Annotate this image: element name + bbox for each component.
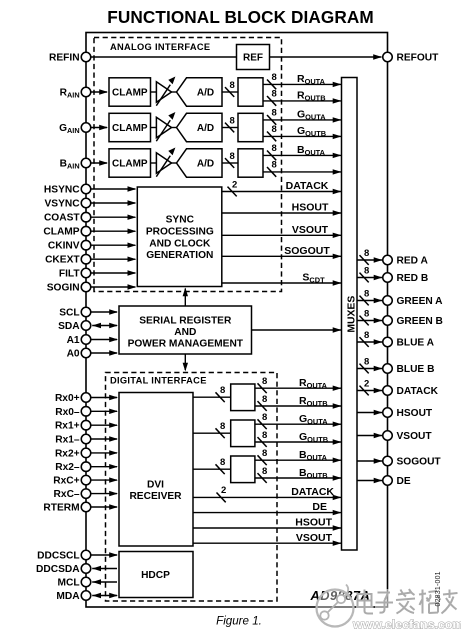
wire BOUTB to muxes xyxy=(263,171,342,173)
pin BAIN xyxy=(81,158,91,168)
svg-text:SDA: SDA xyxy=(58,321,80,332)
bus width 8 xyxy=(258,383,267,393)
bus width 8 xyxy=(360,337,369,347)
wire mux to DE xyxy=(357,480,382,482)
svg-text:MDA: MDA xyxy=(56,591,80,602)
svg-text:8: 8 xyxy=(272,72,277,83)
arrowhead xyxy=(128,200,137,205)
arrowhead xyxy=(374,339,383,344)
svg-text:SOGOUT: SOGOUT xyxy=(284,245,330,257)
pin CLAMP xyxy=(81,226,91,236)
block digital latch (G) xyxy=(231,420,255,447)
arrowhead xyxy=(109,491,118,496)
wire HSYNC to sync block xyxy=(91,188,136,190)
wire amp to A/D (B) xyxy=(172,162,177,164)
wire DVI to latch (R) xyxy=(193,396,231,398)
bus width 8 xyxy=(258,419,267,429)
pin A0 xyxy=(81,348,91,358)
pin Rx0+ xyxy=(81,393,91,403)
pin Rx2- xyxy=(81,462,91,472)
arrowhead xyxy=(183,363,188,372)
pin DDCSCL xyxy=(81,550,91,560)
wire MCL to HDCP xyxy=(92,581,117,583)
amplifier (G) xyxy=(156,117,171,137)
svg-text:RED B: RED B xyxy=(397,273,429,284)
bus width 8 xyxy=(225,123,234,133)
watermark logo xyxy=(317,585,354,627)
svg-text:8: 8 xyxy=(262,448,267,459)
arrowhead xyxy=(128,243,137,248)
svg-text:SYNC: SYNC xyxy=(166,215,195,226)
arrowhead xyxy=(374,433,383,438)
wire mux to VSOUT xyxy=(357,435,382,437)
svg-text:Rx1–: Rx1– xyxy=(55,435,80,446)
svg-text:REFIN: REFIN xyxy=(49,53,80,64)
wire BAIN to CLAMP xyxy=(91,162,107,164)
arrowhead xyxy=(374,410,383,415)
svg-text:REF: REF xyxy=(243,52,263,63)
wire digital ROUTB xyxy=(255,405,342,407)
arrowhead xyxy=(109,337,118,342)
arrowhead xyxy=(109,309,118,314)
arrowhead xyxy=(333,280,342,285)
svg-text:8: 8 xyxy=(364,356,369,367)
arrowhead xyxy=(374,478,383,483)
arrowhead xyxy=(128,186,137,191)
arrowhead xyxy=(109,423,118,428)
wire A/D to latch (R) xyxy=(222,91,238,93)
wire digital BOUTB xyxy=(255,477,342,479)
bus width 8 xyxy=(360,296,369,306)
arrowhead xyxy=(128,215,137,220)
pin RTERM xyxy=(81,502,91,512)
bus width 8 xyxy=(267,151,276,161)
block latch (B) xyxy=(238,149,263,177)
arrowhead xyxy=(374,366,383,371)
svg-text:PROCESSING: PROCESSING xyxy=(146,226,214,237)
pin FILT xyxy=(81,268,91,278)
wire COAST to sync block xyxy=(91,216,136,218)
svg-text:POWER MANAGEMENT: POWER MANAGEMENT xyxy=(128,339,244,350)
svg-text:HDCP: HDCP xyxy=(141,570,170,581)
svg-text:VSOUT: VSOUT xyxy=(397,431,433,442)
pin CKINV xyxy=(81,240,91,250)
arrowhead xyxy=(128,229,137,234)
pin Rx1- xyxy=(81,434,91,444)
arrowhead xyxy=(333,510,342,515)
svg-text:COAST: COAST xyxy=(44,213,80,224)
svg-text:DE: DE xyxy=(312,501,327,513)
wire sync SCDT xyxy=(222,282,342,284)
arrowhead xyxy=(109,464,118,469)
arrowhead xyxy=(333,169,342,174)
block DVI RECEIVER xyxy=(119,393,193,547)
analog interface dashed box xyxy=(94,38,282,292)
wire ROUTB to muxes xyxy=(263,100,342,102)
arrowhead xyxy=(183,288,188,297)
wire DVI to latch (B) xyxy=(193,468,231,470)
wire A0 to serial block xyxy=(91,352,117,354)
arrowhead xyxy=(333,117,342,122)
bus width 8 xyxy=(225,87,234,97)
watermark underlay xyxy=(356,589,458,616)
arrowhead xyxy=(333,98,342,103)
wire mux to SOGOUT xyxy=(357,460,382,462)
arrowhead xyxy=(99,89,108,94)
arrowhead xyxy=(374,318,383,323)
svg-text:VSOUT: VSOUT xyxy=(292,224,329,236)
bus width 8 xyxy=(360,273,369,283)
arrowhead xyxy=(374,388,383,393)
bus width 8 xyxy=(216,464,225,474)
arrowhead xyxy=(373,54,382,59)
wire FILT to sync block xyxy=(91,272,136,274)
arrowhead xyxy=(109,436,118,441)
svg-text:8: 8 xyxy=(230,80,235,91)
arrowhead xyxy=(333,475,342,480)
svg-text:8: 8 xyxy=(272,124,277,135)
pin GREEN B xyxy=(383,316,393,326)
arrowhead xyxy=(333,327,342,332)
wire digital ROUTA xyxy=(255,387,342,389)
pin Rx1+ xyxy=(81,420,91,430)
svg-text:CKINV: CKINV xyxy=(48,241,80,252)
svg-text:RxC+: RxC+ xyxy=(53,476,79,487)
wire mux to BLUE A xyxy=(357,341,382,343)
pin HSOUT xyxy=(383,408,393,418)
svg-text:Rx0–: Rx0– xyxy=(55,407,80,418)
arrowhead xyxy=(92,323,101,328)
block CLAMP (B) xyxy=(109,149,151,177)
wire REFIN to REF xyxy=(91,56,237,58)
digital interface dashed box xyxy=(106,373,278,602)
svg-text:8: 8 xyxy=(364,265,369,276)
svg-text:VSYNC: VSYNC xyxy=(44,199,80,210)
A/D converter (B) xyxy=(177,149,223,177)
bus width 8 xyxy=(225,158,234,168)
arrowhead xyxy=(109,409,118,414)
wire DDCSCL to HDCP xyxy=(91,554,117,556)
wire sync SOGOUT xyxy=(222,255,342,257)
wire DDCSDA to HDCP xyxy=(92,568,117,570)
wire DVI HSOUT xyxy=(193,527,342,529)
svg-text:www.elecfans.com: www.elecfans.com xyxy=(352,618,461,632)
arrowhead xyxy=(92,566,101,571)
svg-text:2: 2 xyxy=(232,179,237,190)
pin GREEN A xyxy=(383,296,393,306)
block SERIAL REGISTER AND POWER MANAGEMENT xyxy=(119,306,252,354)
svg-text:DDCSCL: DDCSCL xyxy=(37,551,79,562)
bus width 8 xyxy=(267,132,276,142)
wire serial to digital xyxy=(184,354,186,370)
arrowhead xyxy=(333,153,342,158)
arrowhead xyxy=(333,439,342,444)
pin BLUE B xyxy=(383,364,393,374)
arrowhead xyxy=(333,386,342,391)
bus width 8 xyxy=(258,401,267,411)
wire A/D to latch (B) xyxy=(222,162,238,164)
arrowhead xyxy=(99,125,108,130)
svg-text:DIGITAL INTERFACE: DIGITAL INTERFACE xyxy=(110,376,207,386)
wire mux to GREEN A xyxy=(357,300,382,302)
wire RxC+ to DVI xyxy=(91,479,117,481)
svg-text:8: 8 xyxy=(364,288,369,299)
wire Rx0– to DVI xyxy=(91,410,117,412)
wire RAIN to CLAMP xyxy=(91,91,107,93)
wire Rx2– to DVI xyxy=(91,466,117,468)
pin DE xyxy=(383,476,393,486)
amplifier (R) xyxy=(156,82,171,102)
arrowhead xyxy=(333,525,342,530)
pin VSOUT xyxy=(383,431,393,441)
pin SDA xyxy=(81,321,91,331)
wire mux to RED A xyxy=(357,259,382,261)
svg-text:REFOUT: REFOUT xyxy=(397,53,440,64)
arrowhead xyxy=(109,350,118,355)
wire A/D to latch (G) xyxy=(222,127,238,129)
svg-text:8: 8 xyxy=(262,430,267,441)
svg-text:8: 8 xyxy=(262,394,267,405)
svg-text:8: 8 xyxy=(364,248,369,259)
A/D converter (R) xyxy=(177,78,223,106)
arrowhead xyxy=(333,541,342,546)
block SYNC PROCESSING AND CLOCK GENERATION xyxy=(137,187,222,287)
svg-text:CLAMP: CLAMP xyxy=(112,123,148,134)
arrowhead xyxy=(374,257,383,262)
bus width 8 xyxy=(267,167,276,177)
svg-text:HSOUT: HSOUT xyxy=(397,408,433,419)
pin RxC- xyxy=(81,489,91,499)
bus width 2 xyxy=(360,386,369,396)
arrowhead xyxy=(333,254,342,259)
arrowhead xyxy=(333,189,342,194)
arrowhead xyxy=(109,395,118,400)
svg-text:A/D: A/D xyxy=(197,158,214,169)
arrowhead xyxy=(333,82,342,87)
svg-text:8: 8 xyxy=(272,89,277,100)
block HDCP xyxy=(119,552,193,598)
pin RxC+ xyxy=(81,475,91,485)
svg-text:DE: DE xyxy=(397,476,411,487)
wire Rx0+ to DVI xyxy=(91,397,117,399)
wire RTERM to DVI xyxy=(91,506,117,508)
svg-text:HSOUT: HSOUT xyxy=(295,517,332,529)
svg-text:8: 8 xyxy=(220,385,225,396)
svg-text:GREEN B: GREEN B xyxy=(397,316,443,327)
svg-text:HSOUT: HSOUT xyxy=(292,202,329,214)
arrowhead xyxy=(128,270,137,275)
pin MDA xyxy=(81,591,91,601)
pin DDCSDA xyxy=(81,564,91,574)
svg-text:2: 2 xyxy=(221,485,226,496)
block MUXES xyxy=(342,78,358,551)
wire sync HSOUT xyxy=(222,212,342,214)
svg-text:GREEN A: GREEN A xyxy=(397,296,444,307)
svg-text:8: 8 xyxy=(364,330,369,341)
chip outline xyxy=(86,33,388,608)
wire mux to RED B xyxy=(357,277,382,279)
wire CLAMP to sync block xyxy=(91,230,136,232)
pin Rx2+ xyxy=(81,448,91,458)
svg-text:CLAMP: CLAMP xyxy=(112,87,148,98)
wire GAIN to CLAMP xyxy=(91,127,107,129)
svg-text:ANALOG INTERFACE: ANALOG INTERFACE xyxy=(110,42,210,52)
wire GOUTA to muxes xyxy=(263,119,342,121)
pin HSYNC xyxy=(81,184,91,194)
svg-text:8: 8 xyxy=(262,412,267,423)
arrowhead xyxy=(333,134,342,139)
bus width 8 xyxy=(267,96,276,106)
svg-text:DATACK: DATACK xyxy=(397,386,439,397)
svg-text:CLAMP: CLAMP xyxy=(112,158,148,169)
svg-text:GENERATION: GENERATION xyxy=(146,250,213,261)
svg-text:8: 8 xyxy=(230,151,235,162)
wire DVI VSOUT xyxy=(193,542,342,544)
arrowhead xyxy=(109,552,118,557)
arrowhead xyxy=(374,298,383,303)
pin RAIN xyxy=(81,87,91,97)
arrowhead xyxy=(333,233,342,238)
pin GAIN xyxy=(81,123,91,133)
arrowhead xyxy=(333,422,342,427)
svg-text:FUNCTIONAL BLOCK DIAGRAM: FUNCTIONAL BLOCK DIAGRAM xyxy=(107,7,374,27)
arrowhead xyxy=(109,593,118,598)
svg-text:Rx2+: Rx2+ xyxy=(55,448,80,459)
pin Rx0- xyxy=(81,407,91,417)
arrowhead xyxy=(99,160,108,165)
arrowhead xyxy=(333,210,342,215)
svg-text:HSYNC: HSYNC xyxy=(44,185,80,196)
block CLAMP (R) xyxy=(109,78,151,106)
svg-text:Rx2–: Rx2– xyxy=(55,462,80,473)
svg-text:SCL: SCL xyxy=(59,308,79,319)
svg-text:2: 2 xyxy=(364,378,369,389)
svg-text:DATACK: DATACK xyxy=(291,486,334,498)
arrowhead xyxy=(333,458,342,463)
svg-text:A/D: A/D xyxy=(197,123,214,134)
arrowhead xyxy=(92,593,101,598)
svg-text:8: 8 xyxy=(262,466,267,477)
svg-text:VSOUT: VSOUT xyxy=(296,532,333,544)
svg-text:DVI: DVI xyxy=(147,479,164,490)
pin DATACK xyxy=(383,386,393,396)
svg-text:FILT: FILT xyxy=(59,269,81,280)
wire sync VSOUT xyxy=(222,234,342,236)
svg-text:MCL: MCL xyxy=(58,578,80,589)
bus width 8 xyxy=(267,115,276,125)
svg-text:8: 8 xyxy=(230,115,235,126)
svg-text:8: 8 xyxy=(272,160,277,171)
svg-text:RxC–: RxC– xyxy=(54,489,80,500)
svg-text:A0: A0 xyxy=(67,349,80,360)
arrowhead xyxy=(374,275,383,280)
wire DVI DATACK xyxy=(193,496,342,498)
wire SDA to serial block xyxy=(92,325,117,327)
svg-text:AND: AND xyxy=(174,327,196,338)
block latch (R) xyxy=(238,78,263,106)
arrowhead xyxy=(374,458,383,463)
block REF xyxy=(237,45,270,70)
wire CKEXT to sync block xyxy=(91,258,136,260)
block digital latch (B) xyxy=(231,456,255,483)
svg-text:8: 8 xyxy=(262,376,267,387)
watermark CJK text xyxy=(358,589,458,614)
svg-text:8: 8 xyxy=(220,457,225,468)
wire Rx2+ to DVI xyxy=(91,452,117,454)
svg-text:8: 8 xyxy=(272,108,277,119)
wire mux to DATACK xyxy=(357,390,382,392)
pin COAST xyxy=(81,212,91,222)
arrowhead xyxy=(333,403,342,408)
bus width 8 xyxy=(360,364,369,374)
bus width 2 xyxy=(217,493,226,503)
svg-text:SERIAL REGISTER: SERIAL REGISTER xyxy=(139,315,232,326)
pin REFOUT xyxy=(383,52,393,62)
svg-text:RED A: RED A xyxy=(397,256,429,267)
bus width 2 xyxy=(228,187,237,197)
pin RED A xyxy=(383,255,393,265)
wire digital BOUTA xyxy=(255,459,342,461)
svg-text:8: 8 xyxy=(364,308,369,319)
svg-text:AND CLOCK: AND CLOCK xyxy=(149,238,211,249)
svg-text:DDCSDA: DDCSDA xyxy=(36,564,80,575)
svg-text:DATACK: DATACK xyxy=(286,180,329,192)
wire SCL to serial block xyxy=(91,311,117,313)
svg-text:Figure 1.: Figure 1. xyxy=(216,615,262,628)
wire DVI to latch (G) xyxy=(193,432,231,434)
amplifier (B) xyxy=(156,153,171,173)
pin SCL xyxy=(81,307,91,317)
pin SOGIN xyxy=(81,282,91,292)
svg-text:SOGIN: SOGIN xyxy=(47,283,80,294)
svg-text:BLUE A: BLUE A xyxy=(397,338,435,349)
pin MCL xyxy=(81,577,91,587)
pin RED B xyxy=(383,273,393,283)
svg-text:Rx1+: Rx1+ xyxy=(55,421,80,432)
arrowhead xyxy=(109,450,118,455)
wire REF to REFOUT xyxy=(270,56,382,58)
arrowhead xyxy=(109,504,118,509)
svg-text:BLUE B: BLUE B xyxy=(397,364,435,375)
pin VSYNC xyxy=(81,198,91,208)
arrowhead xyxy=(92,579,101,584)
wire serial to muxes xyxy=(252,329,342,331)
wire CKINV to sync block xyxy=(91,244,136,246)
block latch (G) xyxy=(238,113,263,141)
svg-text:02831-001: 02831-001 xyxy=(435,571,442,606)
pin REFIN xyxy=(81,52,91,62)
wire serial to sync xyxy=(184,289,186,307)
wire CLAMP to amp (B) xyxy=(151,162,157,164)
svg-text:SOGOUT: SOGOUT xyxy=(397,457,442,468)
bus width 8 xyxy=(258,437,267,447)
arrowhead xyxy=(128,284,137,289)
bus width 8 xyxy=(360,255,369,265)
bus width 8 xyxy=(216,392,225,402)
bus width 8 xyxy=(216,428,225,438)
svg-text:CLAMP: CLAMP xyxy=(43,227,79,238)
wire digital GOUTB xyxy=(255,441,342,443)
wire GOUTB to muxes xyxy=(263,135,342,137)
block digital latch (R) xyxy=(231,384,255,411)
arrowhead xyxy=(128,257,137,262)
svg-text:RECEIVER: RECEIVER xyxy=(129,491,182,502)
svg-text:A/D: A/D xyxy=(197,87,214,98)
wire amp to A/D (R) xyxy=(172,91,177,93)
wire ROUTA to muxes xyxy=(263,83,342,85)
bus width 8 xyxy=(267,80,276,90)
wire Rx1– to DVI xyxy=(91,438,117,440)
